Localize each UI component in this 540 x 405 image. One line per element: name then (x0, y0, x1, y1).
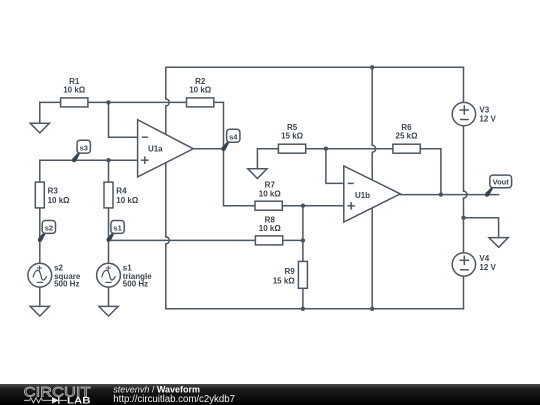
wire V3/V4 column x=463.5 (hop at y=194.6) (463, 67, 465, 102)
wire R3 branch (39, 160, 41, 182)
ground (below s1 source) (99, 306, 118, 316)
wire R7 right to U1b + input (283, 205, 344, 207)
wire R2 right to corner down to R7 corner (214, 102, 255, 205)
wire s1 node to R8 (109, 239, 256, 241)
junction U1b V- pin on negative rail (370, 307, 374, 311)
wire U1b output to Vout (400, 194, 498, 196)
ground (below s2 source) (30, 306, 49, 316)
svg-text:500 Hz: 500 Hz (54, 280, 79, 289)
svg-text:Vout: Vout (493, 178, 510, 187)
wire U1a + input row y=160.2 (40, 159, 138, 161)
svg-text:stevenvh / Waveform: stevenvh / Waveform (113, 385, 200, 395)
op-amp U1a (138, 120, 194, 177)
junction U1a output / R2 node s4 (221, 147, 225, 151)
op-amp U1b power pins vertical wire x=372.2 (hop at y=148.7) (371, 67, 373, 145)
junction R7-R8 column / U1b noninverting node (301, 204, 305, 208)
svg-text:500 Hz: 500 Hz (123, 280, 148, 289)
wire R1 to R2 (88, 101, 187, 103)
svg-text:s4: s4 (229, 133, 238, 142)
logo diode (52, 397, 59, 404)
svg-text:10 kΩ: 10 kΩ (63, 86, 86, 95)
ground (V3/V4 midpoint) (489, 238, 508, 248)
wire U1a output to s4 (193, 148, 223, 150)
resistor R7 (255, 181, 282, 211)
resistor R1 (61, 77, 88, 107)
junction U1a noninverting input / R4 node (106, 158, 110, 162)
svg-text:10 kΩ: 10 kΩ (116, 196, 139, 205)
svg-text:U1a: U1a (148, 144, 163, 153)
junction R9 bottom on negative rail (301, 307, 305, 311)
wire R6 right corner down to output (420, 149, 441, 195)
wire bottom rail y=308.8 (166, 308, 464, 310)
svg-text:R4: R4 (116, 187, 127, 196)
resistor R9 (273, 261, 308, 288)
svg-text:10 kΩ: 10 kΩ (259, 190, 282, 199)
junction R8-R9 node (301, 238, 305, 242)
wire R1 row y=102.4 left (40, 101, 61, 103)
voltage source V4 (452, 253, 496, 276)
svg-text:R5: R5 (287, 123, 298, 132)
node flag s4 (222, 129, 240, 151)
footer bar (0, 384, 540, 405)
resistor R6 (393, 123, 420, 153)
op-amp U1a power pins vertical wire x=165.8 (hops at y=102.4 and y=240.4) (165, 67, 167, 99)
resistor R2 (187, 77, 214, 107)
junction R5 / U1b inverting node (324, 147, 328, 151)
node flag s3 (72, 140, 90, 162)
wire R9 column (302, 206, 304, 262)
svg-text:http://circuitlab.com/c2ykdb7: http://circuitlab.com/c2ykdb7 (113, 394, 235, 405)
svg-text:12 V: 12 V (479, 263, 496, 272)
node flag s1 (107, 221, 125, 242)
voltage source V3 (452, 102, 496, 125)
svg-text:R6: R6 (401, 123, 412, 132)
node flag Vout (485, 175, 512, 197)
wire top rail from U1a V+ pin to V3 column (166, 66, 464, 68)
resistor R8 (255, 216, 282, 245)
svg-text:s2: s2 (45, 224, 53, 233)
wire R5 ground stem (256, 149, 258, 169)
source s1 (triangle) (97, 263, 153, 288)
svg-text:V3: V3 (479, 105, 489, 114)
ground (R1 left) (30, 123, 49, 133)
junction U1b V+ pin on positive rail (370, 65, 374, 69)
op-amp U1b (344, 166, 401, 222)
resistor R4 (104, 182, 139, 208)
svg-text:25 kΩ: 25 kΩ (396, 132, 419, 141)
svg-text:10 kΩ: 10 kΩ (189, 86, 212, 95)
svg-text:12 V: 12 V (479, 114, 496, 123)
svg-text:R9: R9 (284, 267, 295, 276)
logo resistor zigzag (24, 398, 52, 403)
wire R5 left (257, 148, 278, 150)
wire R5 right to R6 left (306, 148, 393, 150)
svg-text:R3: R3 (48, 187, 59, 196)
wire U1b - input branch (326, 149, 344, 184)
svg-text:10 kΩ: 10 kΩ (48, 196, 71, 205)
wire inverting feedback to U1a (109, 102, 138, 137)
wire R8 right to junction (283, 239, 303, 241)
wire R1 left ground stem (39, 102, 41, 123)
svg-text:15 kΩ: 15 kΩ (281, 132, 304, 141)
svg-text:10 kΩ: 10 kΩ (259, 224, 282, 233)
junction R6 / U1b output node (439, 192, 443, 196)
svg-text:s1: s1 (113, 224, 121, 233)
svg-text:U1b: U1b (355, 191, 370, 200)
resistor R5 (278, 123, 305, 153)
junction V3-V4 midpoint node (461, 216, 465, 220)
wire V3-V4 midpoint to ground (464, 218, 499, 238)
svg-text:R7: R7 (265, 181, 276, 190)
node flag s2 (38, 221, 56, 242)
svg-text:LAB: LAB (67, 396, 91, 405)
source s2 (square) (28, 263, 81, 288)
wire R4 branch (108, 160, 110, 182)
ground (R5 left) (248, 169, 267, 179)
svg-text:15 kΩ: 15 kΩ (273, 277, 296, 286)
resistor R3 (35, 182, 70, 208)
junction R1-R2-U1a inverting node (106, 100, 110, 104)
svg-text:s3: s3 (80, 143, 88, 152)
svg-text:V4: V4 (479, 254, 489, 263)
